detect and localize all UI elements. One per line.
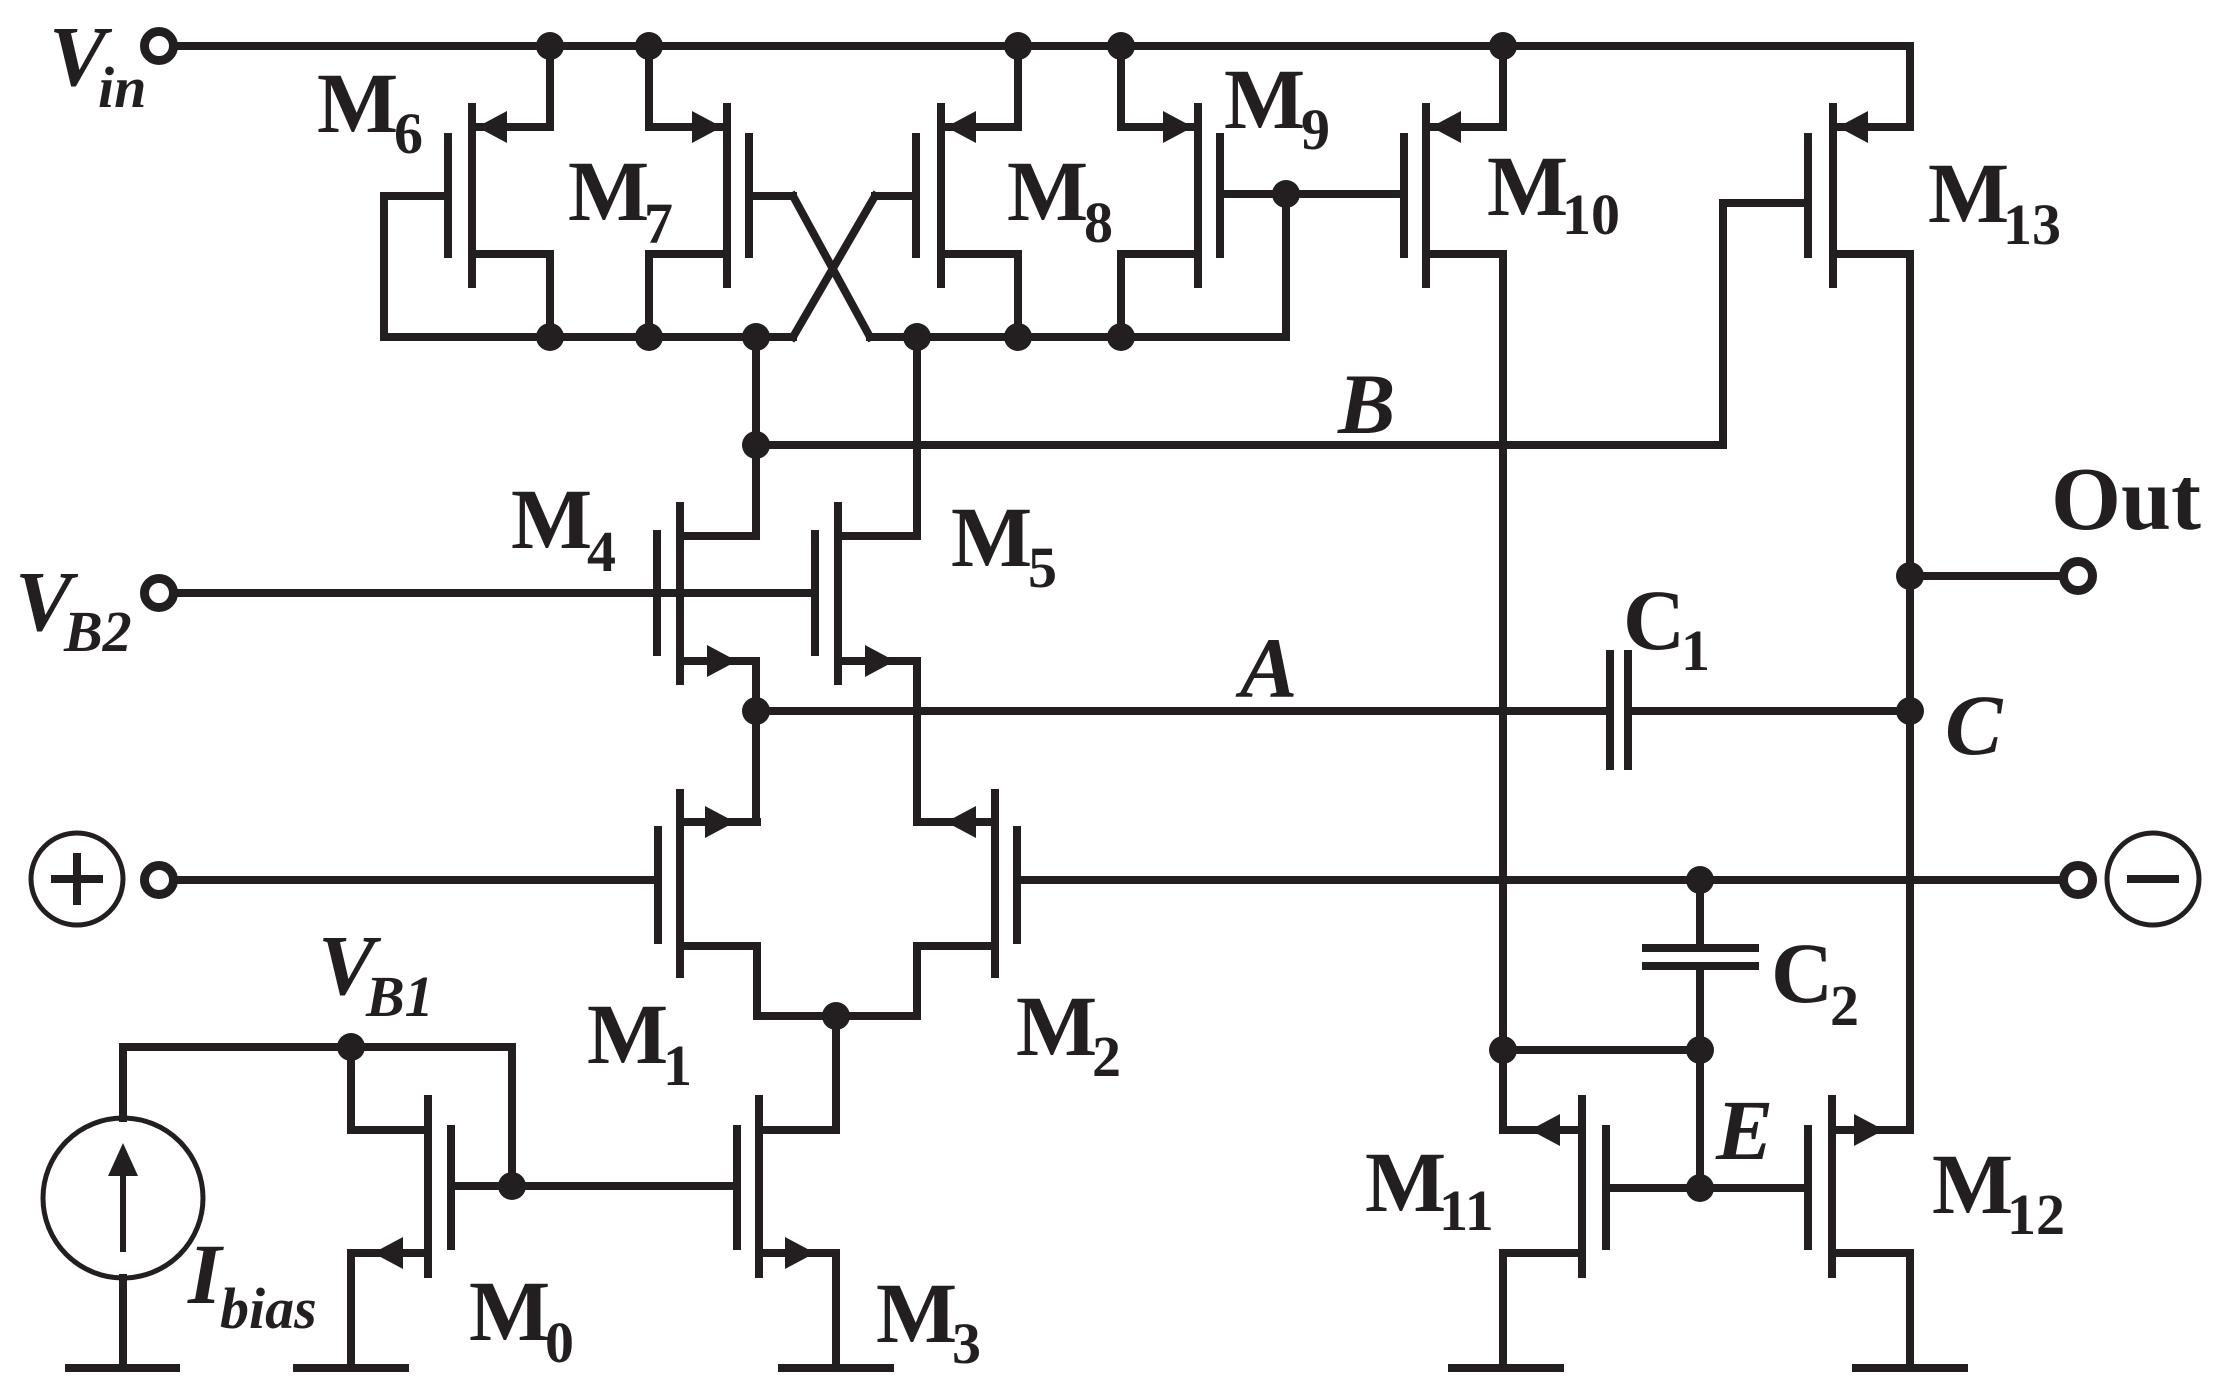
wire VB1 to M0 drain <box>347 1047 355 1130</box>
svg-text:B2: B2 <box>63 599 132 664</box>
wire M13 gate lead <box>1723 199 1808 207</box>
svg-text:C: C <box>1945 677 2004 773</box>
transistor M12 <box>1808 1099 1910 1274</box>
node B junction <box>742 431 770 459</box>
svg-text:M: M <box>876 1265 957 1361</box>
transistor M4 <box>657 506 756 681</box>
terminal VB2 <box>145 579 174 608</box>
wire M13 drain (long, to M12) <box>1906 254 1914 1130</box>
wire node B <box>756 441 1723 449</box>
wire - input to C2 <box>1696 880 1704 948</box>
svg-text:M: M <box>1928 145 2009 241</box>
svg-text:8: 8 <box>1084 190 1113 255</box>
wire M12 source to ground <box>1906 1253 1914 1368</box>
wire M11 M12 gates (node E) <box>1606 1184 1808 1192</box>
node right bus junction down-wire <box>903 323 931 351</box>
wire M8 gate cross-couple diagonal <box>793 196 875 337</box>
transistor M6 <box>448 107 550 284</box>
node M0 M3 gate junction <box>498 1172 526 1200</box>
svg-text:10: 10 <box>1562 182 1620 247</box>
svg-text:M: M <box>1007 143 1088 239</box>
svg-text:M: M <box>1932 1136 2013 1232</box>
svg-text:M: M <box>1016 978 1097 1074</box>
wire left bus to M4 source <box>752 337 760 536</box>
wire M0 source to ground <box>347 1253 355 1368</box>
svg-text:6: 6 <box>394 101 423 166</box>
wire + input to M1 gate <box>178 876 658 884</box>
svg-text:B: B <box>1337 356 1395 452</box>
node tail junction <box>822 1002 850 1030</box>
capacitor C2 <box>1646 948 1755 966</box>
symbol + source circle <box>31 833 123 925</box>
wire M7 source <box>645 46 653 127</box>
node M10 drain / M11 junction <box>1489 1036 1517 1064</box>
svg-text:3: 3 <box>952 1311 981 1376</box>
svg-text:E: E <box>1715 1082 1773 1178</box>
terminal Vin <box>145 32 174 61</box>
node Vin junction M6 <box>536 32 564 60</box>
wire right drain bus (M8 M9 drains) <box>870 333 1286 341</box>
ground M12 <box>1856 1364 1964 1372</box>
svg-text:2: 2 <box>1830 973 1859 1038</box>
svg-text:M: M <box>568 143 649 239</box>
node - input to M11 M12 gate branch <box>1686 866 1714 894</box>
ground M3 <box>782 1364 890 1372</box>
wire M1 source to tail <box>753 946 761 1016</box>
wire M8 gate lead <box>875 192 916 200</box>
svg-text:1: 1 <box>1681 618 1710 683</box>
svg-text:M: M <box>587 986 668 1082</box>
node left bus junction M6 <box>536 323 564 351</box>
node right bus junction M8 <box>1004 323 1032 351</box>
node Vin junction M9 <box>1107 32 1135 60</box>
wire Ibias to VB1 <box>119 1047 127 1118</box>
svg-text:A: A <box>1235 620 1297 716</box>
svg-text:2: 2 <box>1092 1024 1121 1089</box>
node Out junction <box>1896 562 1924 590</box>
node Vin junction M10 <box>1489 32 1517 60</box>
wire gate junction to right bus <box>1282 194 1290 337</box>
node C junction <box>1896 697 1924 725</box>
wire M9 M10 gates <box>1220 190 1404 198</box>
node A junction <box>742 697 770 725</box>
svg-text:Out: Out <box>2051 450 2201 549</box>
svg-text:M: M <box>469 1263 550 1359</box>
wire M7 drain <box>645 254 653 337</box>
svg-text:5: 5 <box>1028 535 1057 600</box>
wire M10 drain (long, to M11) <box>1499 254 1507 1050</box>
wire M9 drain <box>1117 254 1125 337</box>
node right bus junction M9 <box>1107 323 1135 351</box>
svg-text:bias: bias <box>220 1276 317 1341</box>
svg-text:M: M <box>1224 51 1305 147</box>
transistor M10 <box>1404 107 1503 284</box>
transistor M0 <box>351 1099 451 1274</box>
wire tail node <box>757 1012 917 1020</box>
wire M10 source <box>1499 46 1507 127</box>
wire Ibias to ground <box>119 1278 127 1368</box>
wire M13 source <box>1906 46 1914 127</box>
wire - input from M2 gate <box>1017 876 2060 884</box>
svg-text:B1: B1 <box>365 964 434 1029</box>
wire node A to C1 <box>756 707 1610 715</box>
terminal + input <box>145 866 174 895</box>
wire M5 drain to M2 drain <box>913 661 921 822</box>
wire M7 gate cross-couple diagonal <box>793 196 870 337</box>
wire Vin top rail <box>178 42 1910 50</box>
transistor M2 <box>917 793 1017 974</box>
transistor M8 <box>916 107 1018 284</box>
wire M11 source to ground <box>1499 1253 1507 1368</box>
wire M7 gate lead <box>749 192 793 200</box>
wire M3 source to ground <box>832 1253 840 1368</box>
wire VB1 to M0 M3 gates <box>508 1047 516 1186</box>
transistor M3 <box>737 1099 836 1274</box>
svg-text:M: M <box>511 471 592 567</box>
node VB1 junction <box>337 1033 365 1061</box>
svg-text:M: M <box>317 55 398 151</box>
wire M2 source to tail <box>913 946 921 1016</box>
transistor M11 <box>1503 1099 1606 1274</box>
current source Ibias <box>43 1118 203 1278</box>
ground M11 <box>1452 1364 1560 1372</box>
terminal Out <box>2064 562 2093 591</box>
node left bus junction M7 <box>635 323 663 351</box>
svg-text:M: M <box>951 489 1032 585</box>
wire right bus to M5 source <box>913 337 921 536</box>
svg-text:12: 12 <box>2007 1182 2065 1247</box>
symbol - source circle <box>2107 833 2199 925</box>
svg-text:M: M <box>1365 1134 1446 1230</box>
svg-text:M: M <box>1487 138 1568 234</box>
svg-text:C: C <box>1623 572 1685 668</box>
svg-text:C: C <box>1771 925 1833 1021</box>
node C2 branch junction <box>1686 1036 1714 1064</box>
wire M9 source <box>1117 46 1125 127</box>
wire M6 drain <box>546 254 554 337</box>
node Vin junction M8 <box>1004 32 1032 60</box>
svg-text:I: I <box>187 1226 224 1322</box>
svg-text:4: 4 <box>587 519 616 584</box>
ground M0 <box>297 1364 405 1372</box>
node E junction <box>1686 1174 1714 1202</box>
wire C2 to node E branch <box>1696 966 1704 1188</box>
wire M4 drain to node A <box>752 661 760 822</box>
wire M8 source <box>1014 46 1022 127</box>
wire M11 drain to C2 branch <box>1503 1046 1700 1054</box>
svg-text:1: 1 <box>663 1033 692 1098</box>
node M9 M10 gate junction <box>1272 180 1300 208</box>
transistor M7 <box>649 107 749 284</box>
svg-text:7: 7 <box>644 191 673 256</box>
wire M6 gate to drain rail <box>384 192 448 200</box>
svg-text:13: 13 <box>2003 192 2061 257</box>
wire Out lead <box>1910 572 2060 580</box>
svg-text:in: in <box>98 55 146 120</box>
node Vin junction M7 <box>635 32 663 60</box>
wire tail to M3 drain <box>832 1016 840 1130</box>
wire M8 drain <box>1014 254 1022 337</box>
svg-text:0: 0 <box>545 1310 574 1375</box>
terminal - input <box>2064 866 2093 895</box>
svg-text:11: 11 <box>1439 1178 1494 1243</box>
node left bus junction down-wire <box>742 323 770 351</box>
wire M6 source <box>546 46 554 127</box>
wire VB2 to M4 M5 gates <box>178 589 815 597</box>
ground Ibias <box>69 1364 176 1372</box>
capacitor C1 <box>1610 654 1910 766</box>
transistor M5 <box>815 506 917 681</box>
transistor M13 <box>1808 107 1910 284</box>
transistor M1 <box>658 793 757 974</box>
wire left drain bus (M6 M7 drains, node B branch) <box>384 333 793 341</box>
transistor M9 <box>1121 107 1220 284</box>
svg-text:9: 9 <box>1301 97 1330 162</box>
